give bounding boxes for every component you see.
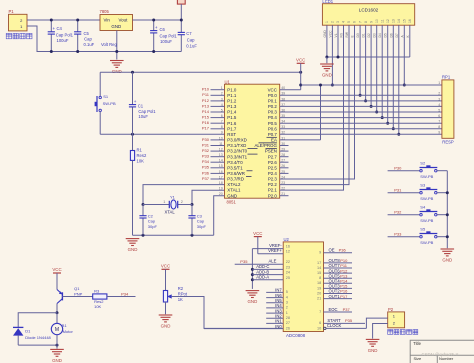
svg-text:P2.7: P2.7 (268, 154, 278, 159)
capacitor C7 (180, 20, 182, 32)
svg-text:P0.4: P0.4 (268, 115, 278, 120)
svg-text:P1: P1 (9, 9, 15, 14)
svg-text:P2.1: P2.1 (268, 188, 278, 193)
motor B1 (56, 313, 58, 324)
svg-text:10K: 10K (94, 304, 101, 309)
svg-text:Diode 1N4448: Diode 1N4448 (25, 335, 51, 340)
wire VCC rail to reset circuit (100, 71, 301, 73)
svg-text:P32: P32 (202, 148, 210, 153)
wire lcd gnd link (327, 56, 410, 58)
svg-text:P13: P13 (202, 103, 210, 108)
wire VREF+ (258, 253, 283, 255)
svg-text:R1: R1 (137, 148, 143, 153)
ground below switches (441, 248, 455, 250)
label zhendangqi-jiekou (388, 330, 393, 335)
svg-text:P1.6: P1.6 (227, 121, 237, 126)
svg-text:7: 7 (319, 310, 321, 314)
svg-text:P0.0: P0.0 (268, 93, 278, 98)
ground below R1 (126, 238, 140, 240)
svg-text:P33: P33 (394, 231, 402, 236)
capacitor C1 (132, 72, 134, 104)
title block (410, 340, 474, 363)
ground below R2 (159, 314, 173, 316)
svg-text:Cap: Cap (84, 37, 92, 42)
svg-text:Motor: Motor (63, 329, 74, 334)
svg-text:2: 2 (286, 306, 288, 310)
svg-text:GND: GND (161, 324, 171, 329)
wire diode to motor bottom (18, 344, 57, 346)
svg-text:P2.5: P2.5 (268, 165, 278, 170)
svg-text:M: M (55, 327, 59, 333)
svg-text:SW-PB: SW-PB (420, 240, 433, 245)
svg-text:Res2: Res2 (137, 153, 147, 158)
svg-text:D1: D1 (25, 328, 31, 333)
svg-text:SW-PB: SW-PB (420, 218, 433, 223)
svg-text:P35: P35 (240, 259, 248, 264)
svg-text:2: 2 (181, 200, 183, 204)
svg-text:3: 3 (438, 97, 440, 101)
wire lcd VSS pin1 to gnd (326, 25, 328, 57)
svg-text:P3.1/TXD: P3.1/TXD (227, 143, 246, 148)
svg-text:14: 14 (397, 19, 401, 23)
svg-text:GND: GND (368, 348, 378, 353)
svg-text:3: 3 (336, 21, 340, 23)
svg-text:Cap Pol1: Cap Pol1 (160, 33, 178, 38)
svg-text:1: 1 (163, 200, 165, 204)
svg-text:P35: P35 (202, 165, 210, 170)
wire CLOCK (324, 327, 326, 329)
svg-text:RST: RST (227, 132, 236, 137)
svg-text:7: 7 (438, 120, 440, 124)
svg-text:P0.2: P0.2 (268, 104, 278, 109)
svg-text:5: 5 (286, 290, 288, 294)
svg-text:Y1: Y1 (170, 195, 176, 200)
switch S3 (388, 192, 420, 194)
svg-text:S5: S5 (420, 226, 426, 231)
svg-text:VCC: VCC (161, 264, 170, 269)
adc pin OUT6 (324, 272, 353, 274)
svg-text:D4: D4 (378, 33, 382, 37)
svg-text:2: 2 (438, 92, 440, 96)
svg-text:P17: P17 (340, 294, 348, 299)
svg-text:5: 5 (438, 108, 440, 112)
svg-text:18: 18 (317, 281, 321, 285)
svg-text:P36: P36 (202, 170, 210, 175)
svg-text:D2: D2 (367, 33, 371, 37)
adc pin IN7 (266, 291, 283, 293)
svg-text:8: 8 (221, 125, 223, 129)
svg-text:P30: P30 (394, 165, 402, 170)
adc pin IN2 (266, 317, 283, 319)
svg-text:P2.6: P2.6 (268, 160, 278, 165)
adc U2 body (283, 242, 323, 332)
crystal Y1 (143, 204, 169, 206)
svg-text:16: 16 (286, 244, 290, 248)
svg-text:P0.3: P0.3 (268, 110, 278, 115)
svg-text:S2: S2 (420, 160, 426, 165)
svg-text:2: 2 (331, 21, 335, 23)
svg-text:4: 4 (438, 103, 440, 107)
svg-text:14: 14 (317, 266, 321, 270)
wire R2 wiper to adc IN0 (172, 297, 283, 329)
svg-text:P1.4: P1.4 (227, 110, 237, 115)
svg-text:P2.0: P2.0 (268, 193, 278, 198)
svg-text:D1: D1 (362, 33, 366, 37)
svg-text:4: 4 (286, 295, 288, 299)
svg-text:30pF: 30pF (197, 224, 207, 229)
svg-text:11: 11 (380, 19, 384, 23)
svg-text:+: + (155, 25, 158, 30)
svg-text:10uF: 10uF (138, 114, 148, 119)
wire GND pin20 to ground rail (214, 196, 225, 236)
svg-text:22: 22 (286, 260, 290, 264)
svg-text:5: 5 (221, 108, 223, 112)
wire EOC (324, 311, 353, 313)
wires P0 bus to RP1 (280, 94, 442, 96)
svg-text:RW: RW (345, 31, 349, 37)
svg-text:6: 6 (438, 114, 440, 118)
wire Q1 collector (56, 304, 58, 313)
wire ADD-C (252, 268, 283, 270)
ground below 7805 (110, 60, 124, 62)
adc pin OUT8 (324, 262, 353, 264)
svg-text:1: 1 (286, 311, 288, 315)
svg-text:SW-PB: SW-PB (420, 174, 433, 179)
svg-text:19: 19 (219, 187, 223, 191)
svg-text:P2: P2 (388, 307, 394, 312)
svg-text:U2: U2 (284, 237, 290, 242)
svg-text:Size: Size (414, 356, 423, 361)
resistor R3 (93, 294, 107, 299)
svg-text:CLOCK: CLOCK (327, 323, 342, 328)
svg-text:R3: R3 (94, 288, 100, 293)
svg-text:P37: P37 (343, 307, 351, 312)
svg-text:XTAL2: XTAL2 (227, 182, 241, 187)
svg-text:VCC: VCC (328, 30, 332, 38)
wire P2 pin2 to gnd (373, 324, 388, 339)
svg-text:D0: D0 (356, 33, 360, 37)
capacitor C5 (77, 20, 79, 32)
svg-text:8051: 8051 (227, 200, 237, 205)
svg-text:GND: GND (323, 30, 327, 38)
wire ADD-B (252, 274, 283, 276)
svg-text:RPot: RPot (178, 291, 188, 296)
svg-text:17: 17 (317, 261, 321, 265)
svg-text:ALE: ALE (269, 259, 277, 264)
svg-text:OE: OE (329, 248, 335, 253)
svg-text:7: 7 (221, 120, 223, 124)
connector P1 (9, 14, 28, 31)
svg-text:0.1uF: 0.1uF (186, 43, 197, 48)
svg-text:U1: U1 (225, 79, 231, 84)
svg-text:8: 8 (319, 276, 321, 280)
svg-text:S1: S1 (103, 94, 109, 99)
wire R3 to P34 (107, 296, 136, 298)
svg-text:12: 12 (386, 19, 390, 23)
wire lcd D3 pin10 to P0.3 (376, 25, 378, 112)
svg-text:LCD1: LCD1 (322, 0, 333, 4)
svg-text:6: 6 (353, 21, 357, 23)
capacitor C2 (142, 205, 144, 216)
wire VREF- (252, 248, 283, 250)
wire vcc rail to RP1 pin1 (301, 84, 442, 86)
svg-text:C7: C7 (186, 31, 192, 36)
svg-text:P1.7: P1.7 (227, 126, 237, 131)
svg-text:10: 10 (375, 19, 379, 23)
svg-text:P0.5: P0.5 (268, 121, 278, 126)
wire EA to vcc rail (280, 139, 321, 141)
wire lcd RW pin5 to P2.2 (280, 25, 349, 184)
connector P2 (388, 312, 405, 328)
svg-text:1: 1 (221, 86, 223, 90)
svg-text:P3.4/T0: P3.4/T0 (227, 160, 243, 165)
wire ALE (235, 263, 284, 265)
svg-text:15: 15 (317, 271, 321, 275)
svg-text:P0.7: P0.7 (268, 132, 278, 137)
wire Q1 base to R3 (62, 296, 92, 298)
svg-text:+: + (53, 26, 56, 31)
ground rail crystal (133, 234, 214, 236)
svg-text:XTAL1: XTAL1 (227, 188, 241, 193)
svg-text:6: 6 (221, 114, 223, 118)
svg-text:GND: GND (112, 69, 122, 74)
svg-text:ADD-A: ADD-A (256, 275, 269, 280)
svg-text:9: 9 (319, 250, 321, 254)
svg-text:20: 20 (317, 291, 321, 295)
lcd LCD1 body (322, 4, 414, 26)
svg-text:VCC: VCC (52, 267, 61, 272)
svg-text:D3: D3 (373, 33, 377, 37)
svg-text:18: 18 (219, 181, 223, 185)
svg-text:15: 15 (403, 19, 407, 23)
svg-text:PNP: PNP (74, 291, 83, 296)
svg-text:Q1: Q1 (74, 286, 80, 291)
svg-text:3: 3 (286, 301, 288, 305)
svg-text:24: 24 (286, 271, 290, 275)
svg-text:VCC: VCC (268, 87, 277, 92)
svg-text:P1.0: P1.0 (227, 87, 237, 92)
transistor Q1 (61, 292, 63, 300)
svg-text:5: 5 (347, 21, 351, 23)
wire lcd VDD pin2 to vcc rail (331, 25, 333, 85)
svg-text:P2.3: P2.3 (268, 177, 278, 182)
svg-text:9: 9 (369, 21, 373, 23)
svg-text:10K: 10K (137, 159, 145, 164)
wire lcd D0 pin7 to P0.0 (359, 25, 361, 95)
svg-text:16: 16 (219, 170, 223, 174)
svg-text:15: 15 (219, 164, 223, 168)
svg-text:P12: P12 (202, 98, 210, 103)
svg-text:SW-PB: SW-PB (420, 196, 433, 201)
svg-text:D5: D5 (384, 33, 388, 37)
svg-text:P37: P37 (202, 176, 210, 181)
wire lcd D5 pin12 to P0.5 (387, 25, 389, 123)
svg-text:ALE/PROG: ALE/PROG (254, 143, 277, 148)
svg-text:VCC: VCC (253, 231, 262, 236)
wire lcd RS pin4 to P2.1 (280, 25, 344, 190)
svg-text:P3.0/RXD: P3.0/RXD (227, 138, 247, 143)
overbar EA PSEN INT WR RD (267, 136, 277, 138)
wire flyback branch (18, 313, 57, 328)
svg-text:27: 27 (286, 321, 290, 325)
capacitor C3 (191, 205, 193, 216)
svg-text:16: 16 (408, 19, 412, 23)
regulator 7805 (100, 15, 133, 31)
svg-text:P14: P14 (202, 109, 210, 114)
wire ADD-A (252, 279, 283, 281)
wire vref- / address ground column (251, 249, 253, 289)
adc pin OUT7 (324, 267, 353, 269)
svg-text:P3.6/WR: P3.6/WR (227, 171, 245, 176)
svg-text:12: 12 (219, 148, 223, 152)
svg-text:VL: VL (334, 33, 338, 37)
svg-text:GND: GND (248, 299, 258, 304)
wire P1 pin1 to ground rail (27, 26, 181, 52)
svg-text:P1.5: P1.5 (227, 115, 237, 120)
svg-text:LCD1602: LCD1602 (359, 8, 379, 13)
svg-text:VREF-: VREF- (269, 243, 282, 248)
svg-text:GND: GND (52, 358, 62, 363)
svg-text:GND: GND (227, 193, 237, 198)
mcu U1 8051 body (225, 84, 280, 198)
svg-text:C6: C6 (160, 27, 166, 32)
svg-text:23: 23 (286, 265, 290, 269)
switch S1 (99, 72, 101, 96)
svg-text:R2: R2 (178, 286, 184, 291)
wire XTAL1 to crystal (192, 190, 225, 204)
svg-text:9: 9 (438, 131, 440, 135)
wire lcd D2 pin9 to P0.2 (370, 25, 372, 106)
svg-text:VCC: VCC (296, 58, 305, 63)
svg-text:EA: EA (271, 138, 277, 143)
svg-text:P11: P11 (202, 92, 210, 97)
svg-text:P30: P30 (202, 137, 210, 142)
svg-text:8: 8 (364, 21, 368, 23)
svg-text:RS: RS (340, 32, 344, 37)
svg-text:13: 13 (392, 19, 396, 23)
svg-text:P3.3/INT1: P3.3/INT1 (227, 154, 247, 159)
adc pin IN3 (266, 312, 283, 314)
wire 7805 GND pin down (116, 31, 118, 60)
svg-text:1K: 1K (178, 297, 183, 302)
svg-text:XTAL: XTAL (165, 209, 176, 214)
adc pin IN4 (266, 307, 283, 309)
wire P1 pin2 to 7805 Vin (27, 19, 100, 21)
svg-text:GND: GND (322, 73, 332, 78)
svg-text:CSDN @qxhw35-Y: CSDN @qxhw35-Y (422, 352, 459, 357)
svg-text:17: 17 (219, 175, 223, 179)
wire lcd E pin6 to P2.3 (280, 25, 355, 179)
svg-text:7: 7 (358, 21, 362, 23)
svg-text:P10: P10 (202, 87, 210, 92)
capacitor C6 (153, 20, 155, 31)
svg-text:GND: GND (111, 24, 121, 29)
svg-text:P32: P32 (394, 209, 402, 214)
svg-text:19: 19 (317, 286, 321, 290)
svg-text:C4: C4 (57, 26, 63, 31)
svg-text:+: + (134, 99, 137, 104)
ground below P2 (366, 338, 380, 340)
adc pin IN1 (266, 322, 283, 324)
ground below address pins (246, 290, 260, 292)
svg-text:RP1: RP1 (442, 75, 451, 80)
svg-text:RESP: RESP (442, 139, 454, 144)
svg-text:D6: D6 (389, 33, 393, 37)
svg-text:ADC0808: ADC0808 (286, 333, 306, 338)
svg-text:S3: S3 (420, 182, 426, 187)
svg-text:GND: GND (128, 247, 138, 252)
wire lcd A pin15 to vcc rail (403, 25, 405, 85)
svg-text:6: 6 (319, 321, 321, 325)
svg-text:P3.7/RD: P3.7/RD (227, 177, 244, 182)
svg-text:P2.4: P2.4 (268, 171, 278, 176)
svg-text:P31: P31 (394, 187, 402, 192)
wire switch common rail (446, 171, 448, 249)
svg-text:3: 3 (221, 97, 223, 101)
svg-text:100uF: 100uF (57, 38, 69, 43)
svg-text:10: 10 (317, 326, 321, 330)
switch S2 (388, 170, 420, 172)
svg-text:P1.3: P1.3 (227, 104, 237, 109)
wire lcd D4 pin11 to P0.4 (381, 25, 383, 117)
svg-text:EOC: EOC (329, 307, 338, 312)
svg-text:Number: Number (439, 356, 454, 361)
svg-text:GND: GND (442, 258, 452, 263)
svg-text:26: 26 (286, 326, 290, 330)
svg-text:P3.5/T1: P3.5/T1 (227, 165, 243, 170)
svg-text:30pF: 30pF (148, 224, 158, 229)
svg-text:2: 2 (221, 92, 223, 96)
adc pin OUT3 (324, 287, 353, 289)
diode D1 (13, 326, 23, 328)
svg-text:4: 4 (221, 103, 223, 107)
svg-text:P2.2: P2.2 (268, 182, 278, 187)
svg-text:11: 11 (219, 142, 223, 146)
svg-text:P17: P17 (202, 126, 210, 131)
svg-text:B1: B1 (62, 323, 68, 328)
svg-text:P31: P31 (202, 142, 210, 147)
svg-text:1: 1 (438, 81, 440, 85)
svg-text:Title: Title (413, 341, 421, 346)
power VCC top (177, 0, 185, 4)
svg-text:S4: S4 (420, 204, 426, 209)
wire 7805 Vout to VCC node (133, 19, 182, 21)
svg-text:P1.1: P1.1 (227, 93, 237, 98)
svg-text:P15: P15 (202, 115, 210, 120)
svg-text:10: 10 (219, 136, 223, 140)
ground below lcd (326, 57, 328, 63)
adc pin IN5 (266, 302, 283, 304)
svg-text:P16: P16 (202, 120, 210, 125)
adc pin IN0 (204, 328, 283, 330)
adc pin IN6 (266, 297, 283, 299)
svg-text:Vin: Vin (104, 18, 111, 23)
wire clock to P2 pin1 (366, 318, 387, 328)
svg-text:P1.2: P1.2 (227, 99, 237, 104)
wire lcd VEE pin3 to gnd (337, 25, 339, 57)
wire OE (324, 252, 353, 254)
svg-text:100uF: 100uF (160, 39, 172, 44)
svg-text:25: 25 (286, 276, 290, 280)
svg-text:13: 13 (219, 153, 223, 157)
wire lcd D6 pin13 to P0.6 (392, 25, 394, 129)
svg-text:9: 9 (221, 131, 223, 135)
svg-text:P34: P34 (121, 291, 129, 296)
svg-text:Cap: Cap (187, 38, 195, 43)
adc pin OUT2 (324, 293, 353, 295)
switch S4 (388, 214, 420, 216)
svg-text:OUT1: OUT1 (329, 294, 341, 299)
